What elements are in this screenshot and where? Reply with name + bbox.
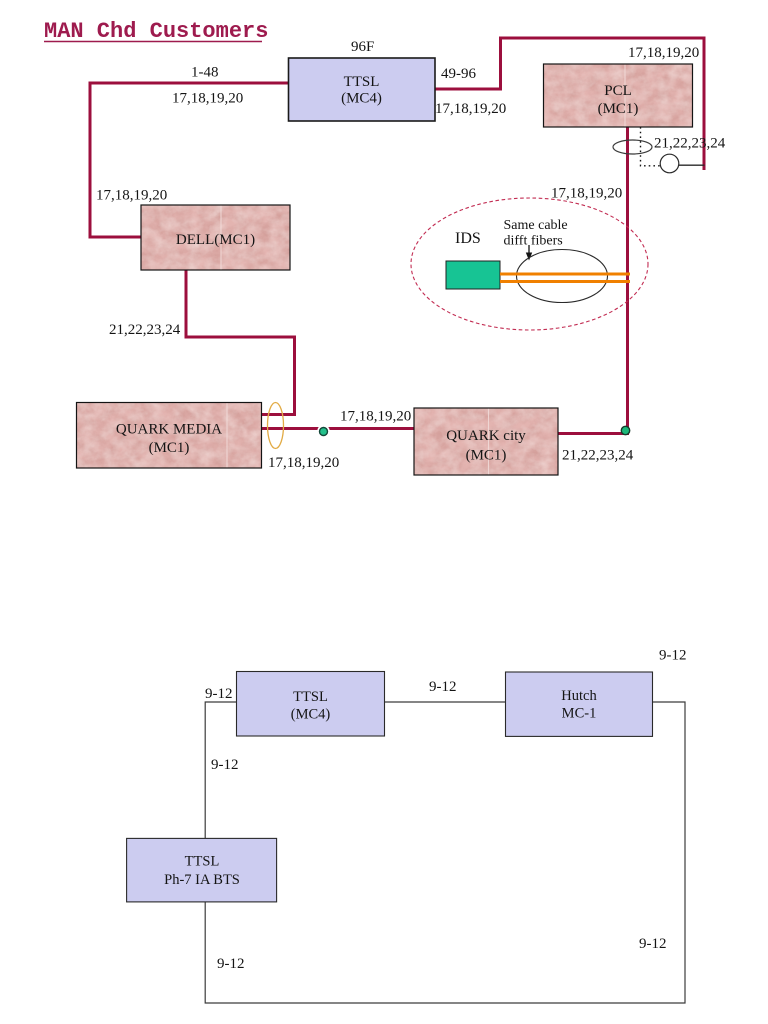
label IDS [455,230,481,247]
node Hutch MC-1 [506,672,653,736]
svg-text:(MC1): (MC1) [149,440,190,456]
label 9-12 left of bottom TTSL [205,686,233,702]
wire QUARK MEDIA right to QUARK city left (maroon) [262,427,414,430]
svg-text:Same cable: Same cable [504,218,568,233]
label 9-12 bottom left [217,956,245,972]
label 1-48 [191,65,219,81]
label 21,22,23,24 above QUARK MEDIA [109,322,181,338]
orange ellipse at QUARK MEDIA right [268,403,284,449]
cable ellipse black [517,250,608,303]
green dot on wire left [317,425,329,437]
svg-text:IDS: IDS [455,230,481,247]
svg-text:17,18,19,20: 17,18,19,20 [172,91,243,107]
circle junction right of PCL [660,154,679,173]
label 21,22,23,24 right of QUARK city [562,448,634,464]
node DELL (MC1) [141,205,290,270]
wire DELL bottom to QUARK MEDIA right (maroon) [186,270,295,415]
svg-text:9-12: 9-12 [639,936,667,952]
label 9-12 bottom right [639,936,667,952]
svg-text:96F: 96F [351,39,374,55]
wire TTSL right up to PCL top right (maroon) [435,38,704,170]
svg-text:21,22,23,24: 21,22,23,24 [654,136,726,152]
svg-text:QUARK city: QUARK city [446,428,526,444]
dashed ellipse around IDS cable [411,198,648,330]
svg-text:9-12: 9-12 [217,956,245,972]
orange fiber line upper [500,273,630,276]
label 21,22,23,24 right of PCL [654,136,726,152]
svg-text:TTSL: TTSL [293,689,328,705]
svg-text:PCL: PCL [604,83,632,99]
node TTSL (MC4) top [289,58,436,121]
label 17,18,19,20 above wire right of QUARK MEDIA [340,409,411,425]
svg-text:(MC4): (MC4) [341,91,382,107]
svg-text:MAN Chd Customers: MAN Chd Customers [44,19,268,44]
svg-text:difft fibers: difft fibers [504,234,563,249]
label 9-12 between TTSL and Hutch [429,679,457,695]
svg-text:(MC1): (MC1) [466,448,507,464]
arrow to cable ellipse [526,245,532,261]
svg-text:17,18,19,20: 17,18,19,20 [628,45,699,61]
label 17,18,19,20 below TTSL right wire [435,101,506,117]
node PCL (MC1) [544,64,693,127]
svg-text:(MC4): (MC4) [291,707,331,723]
wire bottom loop (thin black) [205,702,685,1003]
svg-text:9-12: 9-12 [429,679,457,695]
node QUARK city (MC1) [414,408,558,475]
svg-text:17,18,19,20: 17,18,19,20 [435,101,506,117]
svg-text:49-96: 49-96 [441,66,476,82]
svg-text:17,18,19,20: 17,18,19,20 [268,455,339,471]
svg-text:9-12: 9-12 [211,757,239,773]
svg-text:1-48: 1-48 [191,65,219,81]
svg-text:TTSL: TTSL [185,854,220,870]
label 9-12 left vertical [211,757,239,773]
svg-text:(MC1): (MC1) [598,101,639,117]
svg-text:9-12: 9-12 [659,648,687,664]
node TTSL (MC4) bottom [237,672,385,737]
svg-text:DELL(MC1): DELL(MC1) [176,232,255,248]
orange fiber line lower [500,280,630,283]
svg-text:17,18,19,20: 17,18,19,20 [96,188,167,204]
wire PCL bottom down to QUARK city right (maroon) [558,127,628,434]
label 9-12 top right [659,648,687,664]
svg-text:QUARK MEDIA: QUARK MEDIA [116,422,222,438]
node TTSL Ph-7 IA BTS [127,838,277,902]
green dot at QUARK city right corner [621,426,629,434]
svg-text:9-12: 9-12 [205,686,233,702]
label 17,18,19,20 below wire right of QUARK MEDIA [268,455,339,471]
svg-text:Ph-7 IA BTS: Ph-7 IA BTS [164,872,240,888]
wire TTSL left to DELL (maroon) [90,83,288,237]
node QUARK MEDIA (MC1) [77,403,262,469]
svg-text:17,18,19,20: 17,18,19,20 [340,409,411,425]
label 17,18,19,20 top right above PCL [628,45,699,61]
label 17,18,19,20 above dashed ellipse [551,186,622,202]
title MAN Chd Customers [44,19,268,44]
ellipse below PCL [613,140,652,154]
label 96F [351,39,374,55]
label 49-96 [441,66,476,82]
wire circle to maroon vertical [679,164,705,166]
svg-text:17,18,19,20: 17,18,19,20 [551,186,622,202]
svg-text:Hutch: Hutch [561,688,597,704]
node IDS green box [446,261,500,289]
svg-text:21,22,23,24: 21,22,23,24 [109,322,181,338]
label 17,18,19,20 below top-left wire [172,91,243,107]
svg-text:MC-1: MC-1 [562,706,597,722]
label Same cable difft fibers [504,218,568,249]
svg-text:TTSL: TTSL [344,74,380,90]
dotted wire from PCL bottom to circle [641,127,661,166]
svg-text:21,22,23,24: 21,22,23,24 [562,448,634,464]
label 17,18,19,20 above DELL [96,188,167,204]
